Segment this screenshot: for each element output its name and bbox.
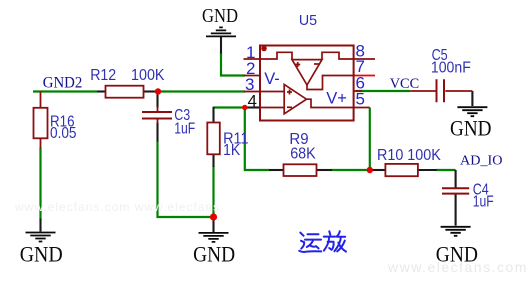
svg-text:R10 100K: R10 100K (377, 147, 441, 164)
svg-text:0.05: 0.05 (50, 125, 77, 142)
svg-text:U5: U5 (299, 12, 317, 29)
svg-text:100K: 100K (131, 67, 165, 84)
svg-text:AD_IO: AD_IO (460, 154, 503, 169)
svg-text:GND: GND (193, 241, 235, 266)
svg-text:4: 4 (248, 91, 257, 110)
svg-text:R12: R12 (90, 67, 116, 84)
svg-text:68K: 68K (290, 145, 316, 162)
svg-text:1uF: 1uF (473, 194, 494, 211)
svg-text:1uF: 1uF (174, 121, 195, 138)
svg-text:GND: GND (202, 5, 238, 27)
svg-text:100nF: 100nF (431, 59, 471, 76)
svg-text:GND: GND (20, 242, 63, 267)
svg-text:www.elecfans.com www.elecfa: www.elecfans.com www.elecfans (14, 200, 220, 214)
svg-text:V-: V- (264, 70, 280, 88)
svg-text:www.elecfans.com: www.elecfans.com (387, 259, 528, 275)
svg-text:V+: V+ (326, 89, 347, 107)
svg-text:VCC: VCC (390, 76, 420, 92)
svg-text:GND2: GND2 (43, 74, 83, 91)
svg-text:5: 5 (356, 90, 365, 109)
svg-text:GND: GND (450, 116, 492, 141)
svg-text:1K: 1K (223, 142, 241, 159)
